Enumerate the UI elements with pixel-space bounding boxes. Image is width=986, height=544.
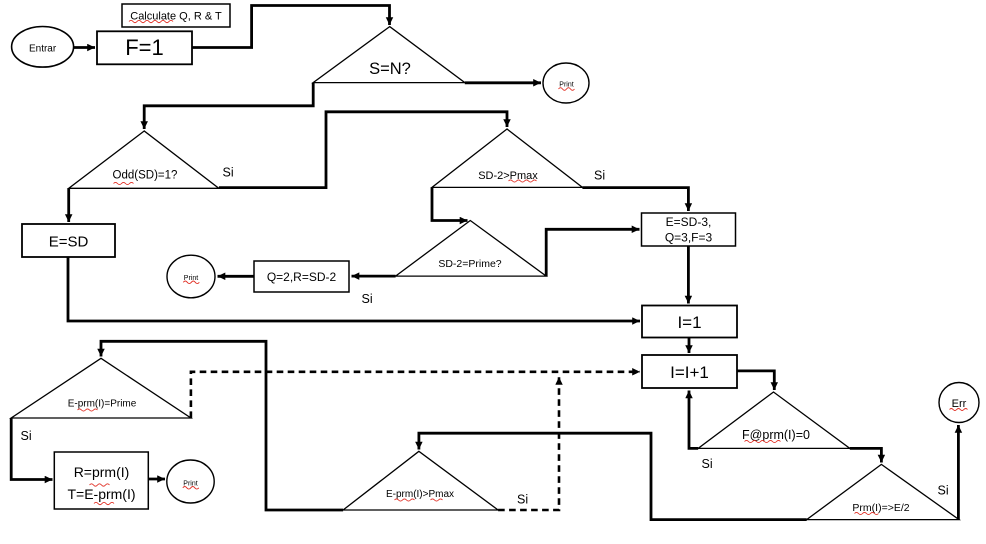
wire I=1 to I=I+1 [688,338,691,353]
svg-text:I=1: I=1 [677,313,701,332]
process box R=prm(I) T=E-prm(I) [54,452,148,509]
decision E-prm(I)>Pmax [343,451,498,510]
squiggle Pmax (E-prm(I)>Pmax) [431,499,443,501]
svg-text:Calculate Q, R & T: Calculate Q, R & T [130,11,222,23]
svg-text:Print: Print [559,82,573,89]
dashed wire E-prm>Pmax no joins dashed line [498,377,559,510]
wire Q=2 box to Print2 [218,275,255,278]
decision Odd(SD)=1? [69,131,219,188]
wire I=I+1 to F@prm apex [737,371,774,390]
svg-text:Si: Si [517,493,528,507]
process box I=I+1 [642,355,737,388]
wire F@prm Si to I=I+1 bottom [689,391,698,449]
squiggle Prm(I) [855,512,879,514]
squiggle Odd [114,182,134,184]
wire Odd Si to SD-2>Pmax apex [219,112,507,188]
svg-text:E=SD-3,: E=SD-3, [666,215,712,229]
decision SD-2>Pmax [432,129,582,187]
svg-text:Si: Si [702,457,713,471]
svg-text:Si: Si [21,429,32,443]
squiggle F@prm [745,440,781,442]
wire SD-2=Prime Si to Q=2 box [352,275,396,278]
wire SD-2=Prime no to E=SD-3 [546,229,639,276]
squiggle prm (E-prm(I)>Pmax) [395,499,415,501]
terminator Print1 [543,63,589,103]
process box Q=2,R=SD-2 [254,261,349,292]
svg-text:T=E-prm(I): T=E-prm(I) [67,486,135,502]
svg-text:Entrar: Entrar [29,44,57,55]
svg-text:SD-2=Prime?: SD-2=Prime? [438,258,501,270]
wire E=SD-3 to I=1 [687,246,690,304]
svg-text:SD-2>Pmax: SD-2>Pmax [478,170,538,182]
squiggle Print3 [183,487,199,490]
wire SD-2>Pmax no to SD-2=Prime apex [432,187,468,220]
squiggle prm (R=prm) [90,484,110,486]
svg-text:Si: Si [223,166,234,180]
decision S=N? [313,27,465,83]
wire Entrar to F=1 [74,46,96,49]
decision E-prm(I)=Prime [11,358,191,418]
wire Prm Si to Err [957,425,960,520]
wire E=SD to I=1 [68,257,640,321]
decision Prm(I)=>E/2 [807,464,959,519]
svg-text:I=I+1: I=I+1 [670,363,709,382]
process box I=1 [642,306,737,338]
wire F@prm no to Prm apex [850,448,882,462]
terminator Print2 [167,255,215,298]
terminator Err [939,383,979,423]
svg-text:Prm(I)=>E/2: Prm(I)=>E/2 [852,502,909,514]
svg-text:F=1: F=1 [125,35,164,60]
decision SD-2=Prime? [396,221,547,277]
wire F=1 to S=N? apex [192,6,389,48]
dashed wire E-prm=Prime no to I=I+1 [191,372,640,418]
svg-text:E-prm(I)>Pmax: E-prm(I)>Pmax [386,489,454,500]
process box E=SD-3 Q=3 F=3 [642,213,736,246]
squiggle Err [950,409,968,411]
svg-text:Q=3,F=3: Q=3,F=3 [665,231,713,245]
squiggle Calculate [129,20,173,22]
wire SD-2>Pmax Si to E=SD-3 [582,188,688,211]
wire Odd no to E=SD [67,188,70,222]
svg-text:E-prm(I)=Prime: E-prm(I)=Prime [68,399,137,410]
svg-text:Odd(SD)=1?: Odd(SD)=1? [113,170,178,182]
svg-text:Si: Si [938,484,949,498]
wire S=N? to Print1 [465,81,541,84]
squiggle prm (T=E-prm) [94,502,114,504]
squiggle Pmax [509,180,537,182]
svg-text:E=SD: E=SD [49,234,89,251]
squiggle Print1 [559,88,575,91]
wire E-prm>Pmax no to E-prm=Prime apex [101,341,343,510]
terminator Print3 [167,460,214,503]
wire Prm no to E-prm(I)>Pmax apex [419,433,807,519]
svg-text:F@prm(I)=0: F@prm(I)=0 [742,428,810,442]
svg-text:S=N?: S=N? [369,60,411,78]
squiggle Print2 [183,281,199,284]
wire E-prm=Prime Si to R=prm box [11,418,52,480]
squiggle prm (E-prm=Prime) [78,409,98,411]
wire S=N? no to Odd apex [144,83,313,129]
svg-text:Si: Si [594,169,605,183]
wire R=prm box to Print3 [148,478,165,481]
terminator Entrar [12,27,74,68]
process box F=1 [97,31,192,64]
decision F@prm(I)=0 [698,392,850,448]
svg-text:Si: Si [362,292,373,306]
svg-text:Q=2,R=SD-2: Q=2,R=SD-2 [267,270,337,284]
process box Calculate Q, R & T [122,4,230,27]
svg-text:R=prm(I): R=prm(I) [74,464,130,480]
process box E=SD [22,224,115,257]
